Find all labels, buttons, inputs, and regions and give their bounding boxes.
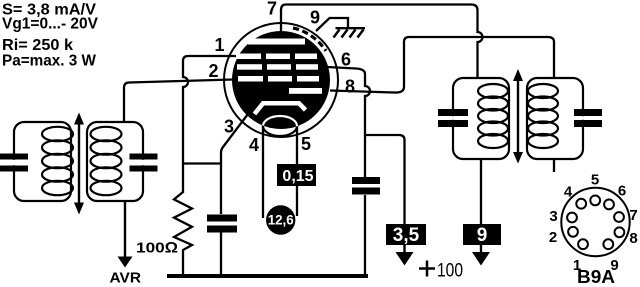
svg-text:0,15: 0,15 bbox=[282, 168, 313, 185]
svg-text:4: 4 bbox=[564, 184, 573, 201]
svg-text:100: 100 bbox=[437, 261, 463, 282]
svg-text:8: 8 bbox=[345, 77, 355, 97]
svg-text:6: 6 bbox=[341, 50, 351, 70]
svg-text:Ri= 250 k: Ri= 250 k bbox=[2, 37, 73, 54]
svg-text:5: 5 bbox=[591, 172, 599, 189]
svg-text:8: 8 bbox=[629, 230, 637, 247]
svg-text:Vg1=0...- 20V: Vg1=0...- 20V bbox=[2, 16, 98, 33]
svg-text:3: 3 bbox=[224, 117, 234, 137]
svg-text:6: 6 bbox=[618, 183, 626, 200]
svg-text:9: 9 bbox=[310, 8, 320, 28]
svg-text:3: 3 bbox=[549, 208, 557, 225]
svg-text:1: 1 bbox=[214, 35, 224, 55]
svg-text:2: 2 bbox=[549, 229, 557, 246]
svg-text:2: 2 bbox=[208, 61, 218, 81]
svg-text:5: 5 bbox=[301, 134, 311, 154]
svg-text:4: 4 bbox=[249, 135, 259, 155]
svg-text:AVR: AVR bbox=[110, 270, 142, 287]
svg-text:3,5: 3,5 bbox=[393, 225, 420, 246]
svg-text:7: 7 bbox=[267, 0, 277, 19]
svg-text:100Ω: 100Ω bbox=[136, 240, 178, 257]
svg-text:12,6: 12,6 bbox=[268, 213, 294, 228]
svg-text:7: 7 bbox=[629, 207, 637, 224]
svg-text:B9A: B9A bbox=[577, 267, 615, 287]
svg-text:9: 9 bbox=[477, 225, 488, 246]
svg-text:Pa=max. 3 W: Pa=max. 3 W bbox=[2, 53, 97, 70]
